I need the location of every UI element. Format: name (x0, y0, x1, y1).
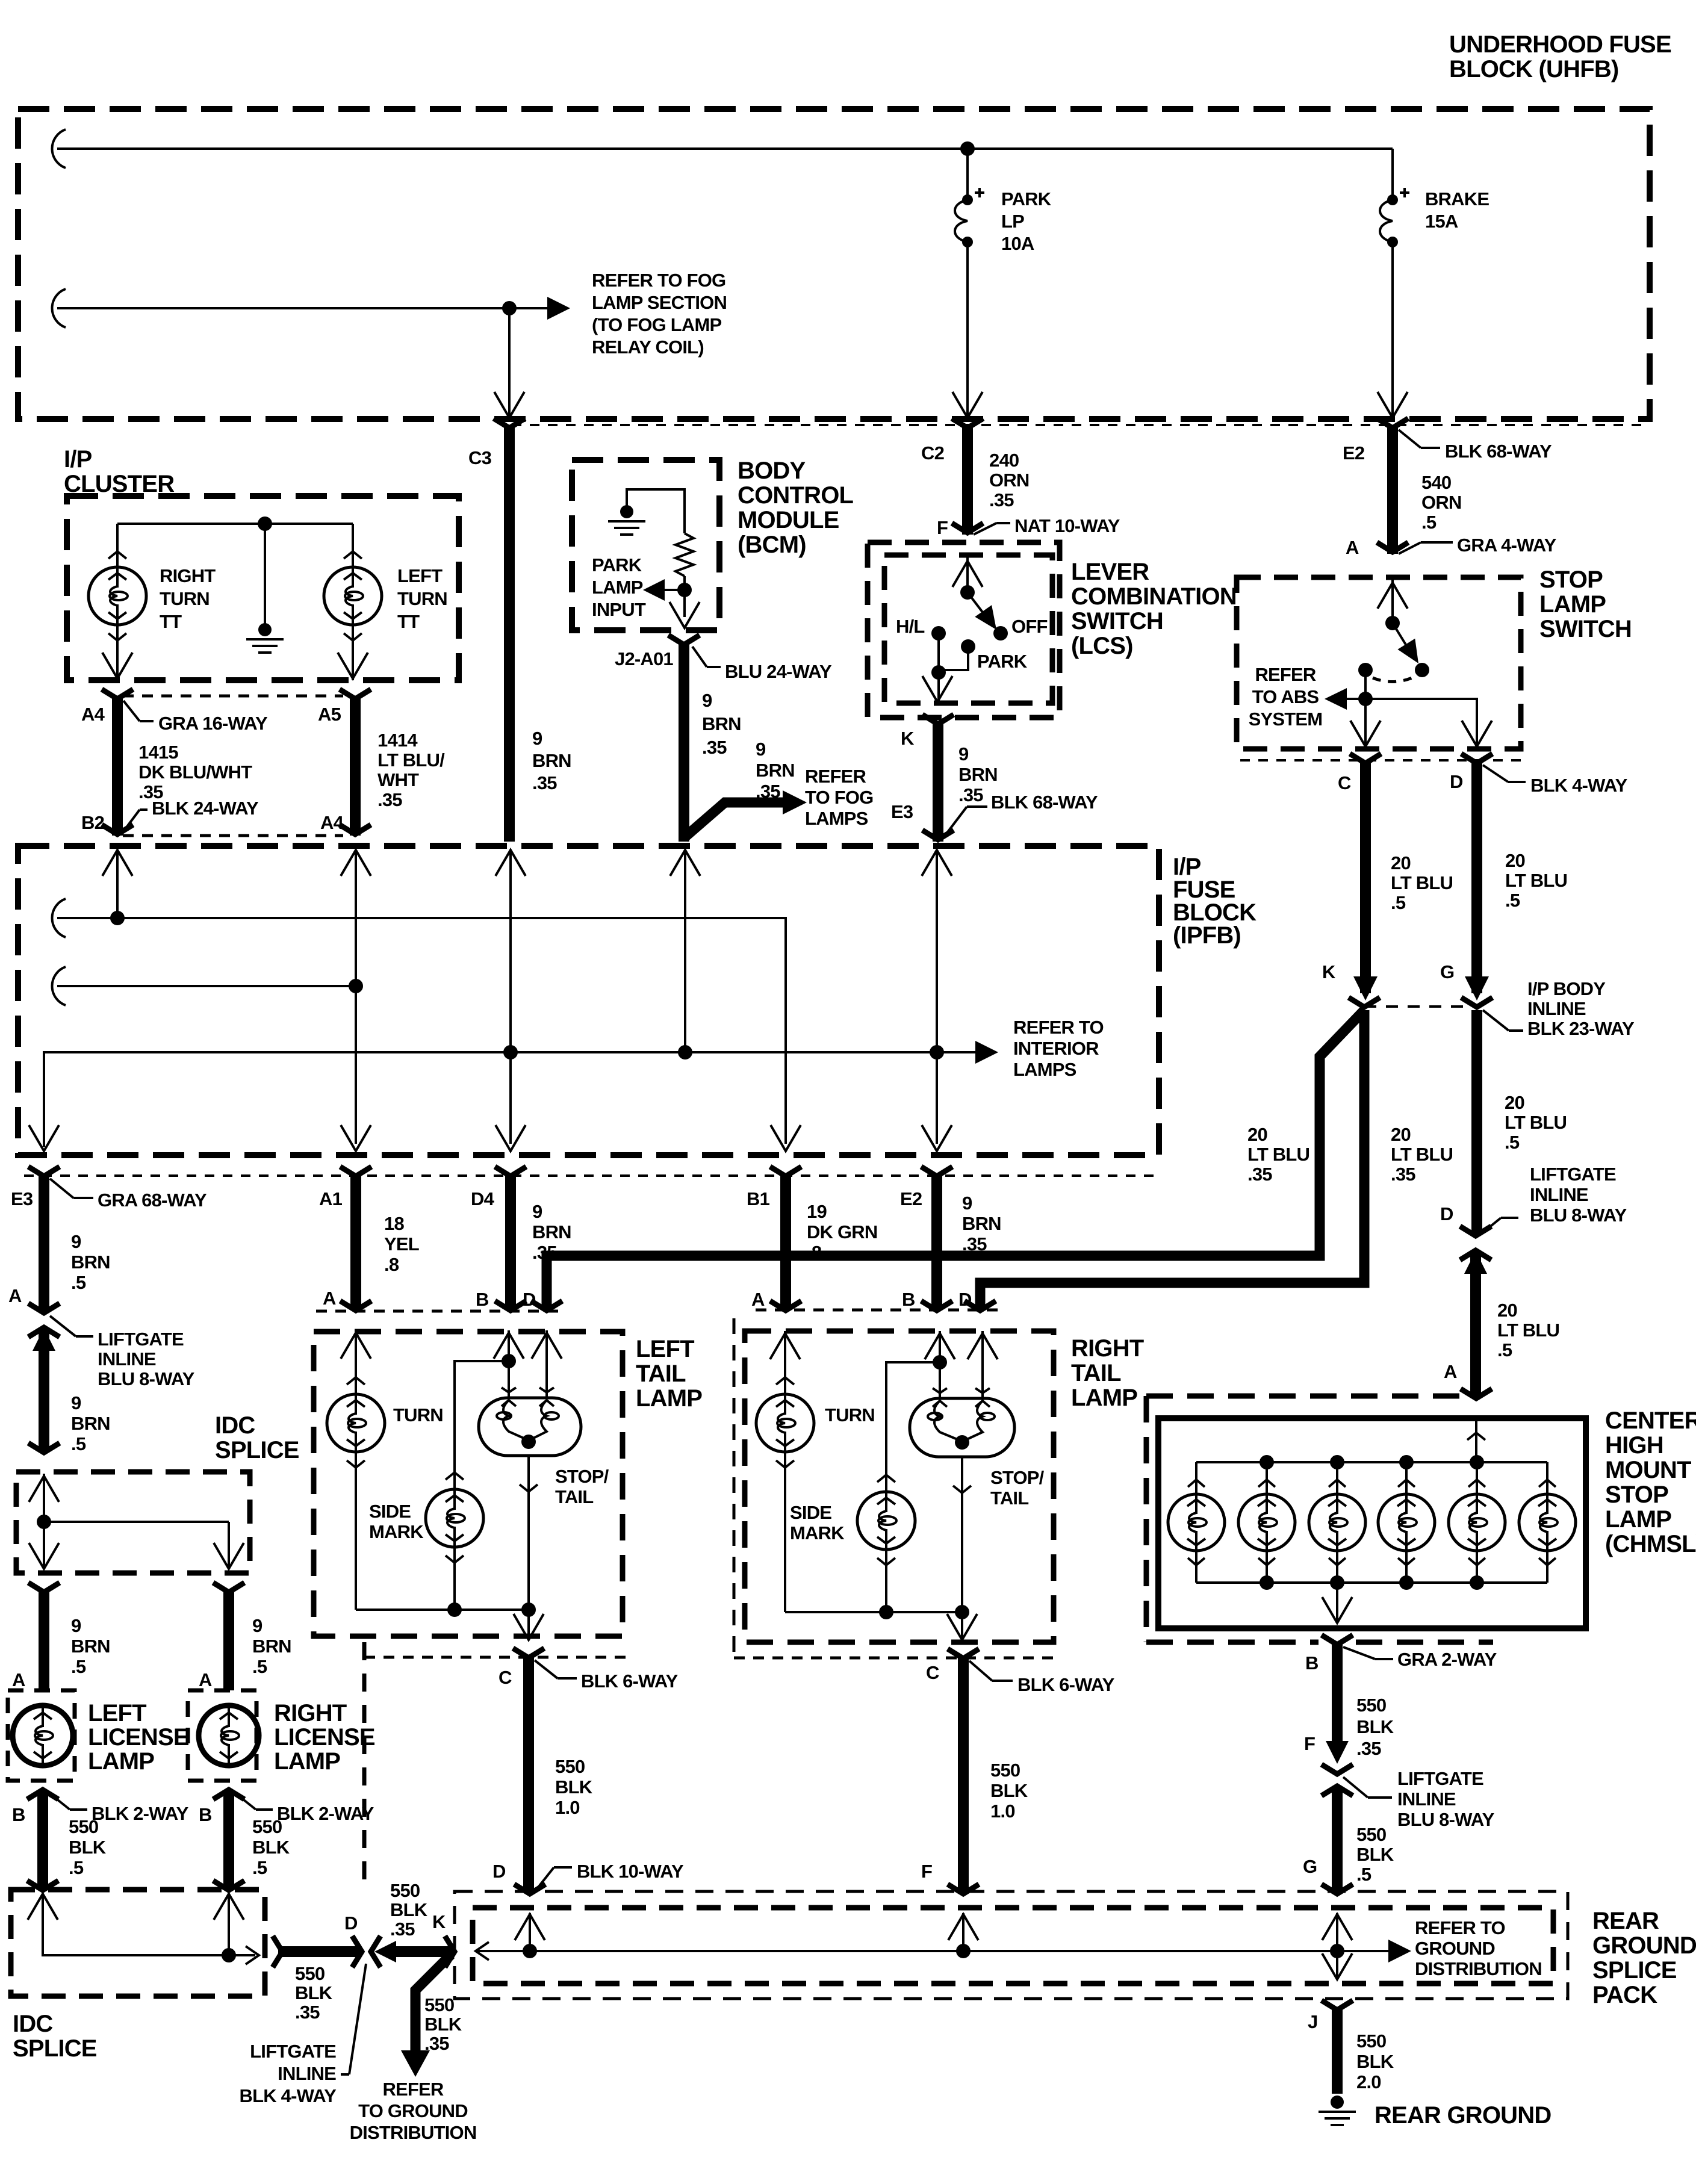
lamp: CHMSL bulb 5 (1476, 1462, 1478, 1494)
svg-text:1.0: 1.0 (555, 1797, 580, 1818)
connector D (liftgate inline BLK 4-WAY) (352, 1936, 362, 1967)
stop switch connector face line (1240, 759, 1529, 762)
connector K (rear ground splice) (445, 1936, 455, 1967)
wire: LCS feed (966, 555, 969, 592)
wire: CHMSL ground exit (1336, 1583, 1338, 1621)
svg-text:1415: 1415 (138, 742, 178, 763)
svg-text:20: 20 (1391, 852, 1411, 873)
wire: splice J branch (1336, 1951, 1338, 1978)
lamp: right SIDE MARK (857, 1492, 915, 1550)
node: bus3 junction at C3 (678, 1045, 692, 1059)
connector A4 GRA 16-WAY (102, 689, 133, 699)
wire: CHMSL top bus (1196, 1461, 1547, 1463)
wire: right turn feed entering box (784, 1331, 786, 1394)
svg-text:9: 9 (71, 1231, 81, 1252)
svg-text:(CHMSL): (CHMSL) (1605, 1531, 1696, 1557)
svg-text:BODY: BODY (738, 458, 806, 484)
node: CHMSL bottom bus junction x=2221 (1330, 1575, 1344, 1590)
svg-text:PARK: PARK (977, 651, 1028, 672)
wire: liftgate inline to IDC splice, 9 BRN .5 (39, 1328, 49, 1452)
lamp: right tail TURN (756, 1394, 814, 1452)
wire: CHMSL bottom bus (1196, 1581, 1547, 1584)
wire: branch to right side marker (886, 1362, 940, 1492)
svg-text:LAMP: LAMP (1071, 1385, 1137, 1411)
node: LCS output junction (931, 665, 946, 680)
svg-text:TAIL: TAIL (990, 1488, 1028, 1509)
svg-text:D: D (523, 1289, 536, 1310)
svg-text:LEVER: LEVER (1071, 559, 1149, 585)
connector C2 (UHFB) (952, 418, 983, 428)
svg-text:IDC: IDC (13, 2011, 53, 2037)
wire: IPFB C3 internal (684, 850, 686, 1052)
svg-text:BLU 24-WAY: BLU 24-WAY (725, 661, 832, 682)
lamp: right STOP/TAIL dual filament (910, 1398, 1014, 1457)
node: IDC2 splice node (222, 1948, 236, 1962)
connector C3 (UHFB) (494, 418, 525, 428)
node: bus3 junction at D4 (503, 1045, 518, 1059)
svg-text:INTERIOR: INTERIOR (1013, 1038, 1099, 1059)
svg-text:E3: E3 (891, 801, 913, 822)
svg-text:A5: A5 (318, 704, 341, 725)
wire: left tail ground exit (527, 1610, 530, 1639)
svg-text:C3: C3 (468, 447, 492, 468)
svg-text:BLU 8-WAY: BLU 8-WAY (98, 1368, 195, 1389)
wire: stop output to C (1364, 699, 1367, 745)
svg-text:GRA 4-WAY: GRA 4-WAY (1457, 535, 1557, 556)
svg-text:20: 20 (1505, 850, 1525, 871)
svg-text:15A: 15A (1425, 211, 1458, 232)
node: park lamp input node (677, 583, 692, 597)
I/P cluster dashed box (67, 496, 459, 680)
svg-text:MODULE: MODULE (738, 507, 839, 533)
wire: LCS K to IPFB E3, 9 BRN .35 (933, 724, 943, 842)
left tail lamp dashed box (314, 1332, 623, 1636)
lamp: left SIDE MARK (426, 1489, 483, 1547)
svg-text:.5: .5 (1391, 892, 1406, 913)
left tail lamp connector face line (316, 1310, 566, 1313)
LCS inner dashed box (884, 555, 1052, 703)
svg-text:LAMP: LAMP (1539, 591, 1606, 618)
connector E2 (UHFB), BLK 68-WAY (1377, 418, 1408, 428)
svg-text:C2: C2 (921, 442, 944, 464)
wire: left turn feed entering box (355, 1330, 357, 1394)
svg-text:9: 9 (71, 1392, 81, 1413)
node: ground bus at side marker (447, 1602, 462, 1617)
node: right ground bus at side marker (879, 1605, 893, 1619)
wire: UHFB feed bus 2 (fog lamp feed) (57, 307, 509, 309)
svg-text:A1: A1 (319, 1188, 343, 1209)
svg-text:BRN: BRN (71, 1252, 110, 1273)
wire: C2 to LCS F, 240 ORN .35 (962, 425, 973, 535)
svg-text:INLINE: INLINE (98, 1348, 156, 1370)
svg-text:RIGHT: RIGHT (1071, 1335, 1144, 1362)
svg-text:K: K (901, 728, 915, 749)
svg-text:C: C (1338, 772, 1351, 793)
svg-text:LIFTGATE: LIFTGATE (250, 2041, 336, 2062)
svg-text:TAIL: TAIL (555, 1486, 593, 1507)
wire: left turn lamp to A5 (352, 625, 354, 680)
svg-text:A: A (323, 1288, 336, 1309)
lamp: RIGHT TURN TT (89, 567, 146, 625)
connector K (I/P body inline) (1349, 997, 1380, 1007)
lamp: CHMSL bulb 2 (1266, 1462, 1268, 1494)
svg-text:LAMP: LAMP (592, 577, 643, 598)
wire: LCS output (937, 672, 940, 701)
wire: right license to IDC2, 550 BLK .5 (223, 1790, 234, 1890)
lamp: CHMSL bulb 6 (1546, 1462, 1548, 1494)
svg-text:19: 19 (807, 1201, 827, 1222)
wire: BRAKE fuse output (1391, 242, 1394, 415)
svg-text:B1: B1 (747, 1188, 770, 1209)
lamp: RIGHT LICENSE LAMP (199, 1705, 259, 1766)
IDC splice dashed box (upper) (16, 1472, 250, 1573)
svg-text:I/P BODY: I/P BODY (1527, 978, 1606, 999)
svg-text:F: F (1304, 1733, 1315, 1754)
svg-text:LT BLU: LT BLU (1505, 1112, 1567, 1133)
svg-text:BLK 68-WAY: BLK 68-WAY (991, 792, 1098, 813)
connector D4 (495, 1167, 526, 1176)
svg-text:LIFTGATE: LIFTGATE (1530, 1164, 1616, 1185)
svg-text:.35: .35 (532, 1242, 557, 1263)
svg-text:18: 18 (384, 1213, 404, 1234)
wire: splice G branch (1336, 1913, 1338, 1951)
node: stop output junction (1358, 692, 1373, 706)
connector left license feed (28, 1583, 60, 1592)
switch: LCS wiper (968, 592, 992, 625)
wire: A1 to left tail lamp A, 18 YEL .8 (350, 1176, 361, 1310)
switch: stop lamp switch wiper (1393, 623, 1414, 657)
svg-text:COMBINATION: COMBINATION (1071, 583, 1237, 610)
node: cluster bus junction (258, 517, 272, 531)
svg-text:LEFT: LEFT (88, 1700, 146, 1726)
svg-text:BLOCK (UHFB): BLOCK (UHFB) (1449, 56, 1618, 82)
svg-text:DK BLU/WHT: DK BLU/WHT (138, 762, 252, 783)
svg-text:SWITCH: SWITCH (1071, 608, 1163, 634)
svg-text:BLK 6-WAY: BLK 6-WAY (581, 1671, 679, 1692)
svg-text:LT BLU: LT BLU (1391, 872, 1453, 893)
wire: refer to ABS arrow (1347, 698, 1365, 700)
I/P body inline connector line (1364, 1005, 1477, 1008)
svg-text:MARK: MARK (790, 1522, 845, 1543)
node: stop/tail common (521, 1435, 536, 1449)
node: splice at G/J (1330, 1944, 1344, 1958)
wire: IDC2 left branch (43, 1894, 226, 1955)
wire: D to G inline, 20 LT BLU .5 (1471, 763, 1482, 993)
wire: right tail ground exit (961, 1612, 963, 1639)
wire: K inline branch 1 (to left tail lamp D), 20 LT BLU .35 (547, 1010, 1364, 1310)
right tail lamp outer boundary (733, 1318, 736, 1658)
svg-text:CENTER: CENTER (1605, 1407, 1696, 1434)
node: stop switch common (1385, 616, 1400, 630)
connector D (stop switch) BLK 4-WAY (1461, 754, 1493, 763)
wire: IPFB bus 3 (to interior lamps) (44, 1052, 987, 1147)
svg-text:BLK: BLK (390, 1899, 428, 1920)
wire: IPFB bus 2 (52, 967, 66, 1005)
ground: BCM internal ground (620, 505, 633, 518)
cluster connector face line (A4/A5) (123, 695, 343, 698)
svg-text:G: G (1303, 1856, 1317, 1877)
svg-text:BLK 2-WAY: BLK 2-WAY (277, 1803, 374, 1824)
connector B right license BLK 2-WAY (213, 1790, 244, 1799)
svg-text:(TO FOG LAMP: (TO FOG LAMP (592, 314, 722, 335)
svg-text:A: A (1444, 1361, 1457, 1382)
svg-text:LT BLU/: LT BLU/ (377, 749, 445, 771)
wire: resistor to output node (683, 576, 686, 617)
node: IDC1 splice node (37, 1515, 51, 1529)
svg-text:STOP: STOP (1539, 566, 1603, 593)
node: right stop/tail common (955, 1435, 969, 1450)
svg-text:1414: 1414 (377, 730, 418, 751)
rear ground splice pack outer dashed box (455, 1891, 1568, 1999)
connector A GRA 4-WAY (1377, 542, 1408, 552)
svg-text:RELAY COIL): RELAY COIL) (592, 337, 704, 358)
svg-text:SIDE: SIDE (790, 1502, 831, 1523)
svg-text:.35: .35 (1247, 1164, 1272, 1185)
wire: BCM ground to resistor (627, 489, 685, 533)
svg-text:.5: .5 (1505, 1132, 1520, 1153)
IDC splice dashed box (lower) (11, 1890, 265, 1996)
connector A (CHMSL) (1461, 1389, 1492, 1398)
svg-text:9: 9 (702, 690, 712, 711)
svg-text:I/P: I/P (64, 446, 92, 473)
svg-text:LICENSE: LICENSE (274, 1724, 375, 1751)
svg-text:A: A (8, 1285, 22, 1306)
svg-text:K: K (1322, 961, 1336, 982)
svg-text:.5: .5 (71, 1272, 86, 1293)
liftgate boundary dashed line (left) (362, 1642, 367, 1890)
ground: cluster ground (264, 524, 266, 630)
wire: PARK fuse output (966, 242, 969, 415)
svg-text:YEL: YEL (384, 1233, 419, 1255)
wire: splice F branch (962, 1913, 964, 1951)
node: stop switch NO contact (1415, 663, 1429, 677)
lamp: CHMSL bulb 1 (1195, 1462, 1197, 1494)
svg-text:.35: .35 (1391, 1164, 1415, 1185)
node: splice at D (523, 1944, 537, 1958)
wire: IPFB F3-D4 internal (509, 850, 512, 1144)
svg-text:LT BLU: LT BLU (1505, 870, 1567, 891)
svg-text:DK GRN: DK GRN (807, 1221, 877, 1242)
svg-text:9: 9 (252, 1615, 262, 1636)
connector B1 (770, 1167, 801, 1176)
svg-text:MOUNT: MOUNT (1605, 1457, 1691, 1483)
node: CHMSL top bus junction x=2336 (1399, 1455, 1414, 1469)
svg-text:10A: 10A (1001, 233, 1034, 254)
connector left license ground (27, 1881, 58, 1890)
wire: C to K inline, 20 LT BLU .5 (1360, 763, 1371, 993)
wire: IDC to right license lamp, 9 BRN .5 (223, 1592, 234, 1690)
svg-text:BRN: BRN (71, 1413, 110, 1434)
svg-text:BLK 24-WAY: BLK 24-WAY (152, 798, 259, 819)
wire: liftgate inline to rear ground G, 550 BLK .5 (1332, 1787, 1343, 1891)
underhood fuse block UHFB dashed box (18, 109, 1650, 419)
svg-text:UNDERHOOD FUSE: UNDERHOOD FUSE (1449, 31, 1671, 58)
wire: E2 to stop lamp switch A, 540 ORN .5 (1387, 425, 1398, 554)
svg-text:550: 550 (1356, 1695, 1386, 1716)
svg-text:9: 9 (532, 728, 542, 749)
wire: G inline to liftgate inline D, 20 LT BLU .5 (1471, 1010, 1482, 1235)
svg-text:.8: .8 (807, 1242, 822, 1263)
svg-text:BRN: BRN (958, 764, 998, 785)
node: bus1 junction at B2 (110, 911, 125, 925)
svg-text:D: D (1450, 771, 1463, 792)
wire: feed bus drop to BRAKE fuse (1391, 149, 1394, 200)
svg-text:TURN: TURN (825, 1404, 875, 1425)
svg-text:G: G (1440, 961, 1454, 982)
connector K (LCS) (922, 715, 954, 724)
I/P fuse block dashed box (18, 846, 1159, 1155)
wire: right stop/tail to ground bus (961, 1457, 963, 1612)
connector B2 BLK 24-WAY (102, 825, 133, 834)
svg-text:2.0: 2.0 (1356, 2071, 1381, 2092)
svg-text:SIDE: SIDE (369, 1501, 411, 1522)
node: splice at F (956, 1944, 971, 1958)
svg-text:BLK 4-WAY: BLK 4-WAY (240, 2085, 337, 2106)
wire: right tail B feed entering box (939, 1331, 941, 1400)
wire: right tail ground bus (785, 1611, 962, 1613)
svg-text:TAIL: TAIL (1071, 1360, 1121, 1386)
svg-text:20: 20 (1505, 1092, 1524, 1113)
svg-text:9: 9 (958, 743, 969, 765)
svg-text:STOP/: STOP/ (555, 1466, 609, 1487)
svg-text:F: F (937, 517, 948, 538)
wire: left license to IDC2, 550 BLK .5 (37, 1790, 48, 1890)
svg-text:B: B (12, 1804, 25, 1825)
svg-text:540: 540 (1421, 472, 1451, 493)
wire: right turn lamp to ground bus (784, 1452, 786, 1612)
node: bus3 junction at E2 (930, 1045, 944, 1059)
node: ground bus at stop/tail (521, 1602, 536, 1617)
svg-text:D: D (344, 1913, 358, 1934)
svg-text:OFF: OFF (1011, 616, 1048, 637)
wire: CHMSL feed (1475, 1418, 1477, 1462)
svg-text:BLK: BLK (1356, 1716, 1394, 1737)
svg-text:PACK: PACK (1592, 1982, 1657, 2008)
svg-text:20: 20 (1391, 1124, 1411, 1145)
wire: splice D branch (529, 1913, 531, 1951)
svg-text:.8: .8 (384, 1254, 399, 1275)
svg-text:REFER TO FOG: REFER TO FOG (592, 270, 725, 291)
svg-text:550: 550 (69, 1816, 98, 1837)
svg-text:B2: B2 (81, 812, 104, 833)
wire: right turn lamp feed (116, 524, 119, 567)
svg-text:BLK: BLK (555, 1776, 593, 1798)
svg-text:SYSTEM: SYSTEM (1249, 709, 1323, 730)
wire: IPFB A4-A1 internal (355, 850, 357, 1144)
svg-text:REAR GROUND: REAR GROUND (1375, 2102, 1551, 2129)
wire: A4 to B2, 1415 DK BLU/WHT .35 (112, 696, 123, 836)
svg-text:GRA 2-WAY: GRA 2-WAY (1397, 1649, 1497, 1670)
svg-text:REFER TO: REFER TO (1013, 1017, 1104, 1038)
svg-text:550: 550 (555, 1756, 585, 1777)
wire: CHMSL B to liftgate inline, 550 BLK .35 (1332, 1644, 1343, 1753)
svg-text:BLK: BLK (424, 2014, 462, 2035)
svg-text:C: C (499, 1667, 512, 1688)
wire: J2-A01 to IPFB C3, 9 BRN .35 (679, 644, 689, 842)
wire: liftgate inline to rear ground K, 550 BLK .35 (374, 1941, 396, 1962)
wire: IPFB E3-E2 internal (936, 850, 938, 1144)
svg-text:550: 550 (1356, 2030, 1386, 2052)
wire: left tail ground bus (356, 1609, 529, 1611)
svg-text:E2: E2 (900, 1188, 922, 1209)
lamp: left tail TURN (327, 1394, 385, 1452)
lamp: CHMSL bulb 3 (1336, 1462, 1338, 1494)
svg-text:BLK 4-WAY: BLK 4-WAY (1530, 775, 1628, 796)
wire: PARK contact drop (941, 647, 968, 670)
svg-text:D: D (1440, 1203, 1453, 1224)
svg-text:REFER TO: REFER TO (1415, 1917, 1505, 1938)
svg-text:IDC: IDC (215, 1412, 255, 1439)
svg-text:TAIL: TAIL (636, 1360, 686, 1387)
svg-text:BLK 6-WAY: BLK 6-WAY (1017, 1674, 1115, 1695)
svg-text:ORN: ORN (1421, 492, 1462, 513)
svg-text:BRN: BRN (532, 1221, 571, 1242)
svg-text:B: B (1305, 1652, 1319, 1674)
svg-text:INPUT: INPUT (592, 599, 646, 620)
svg-text:BRN: BRN (962, 1213, 1001, 1234)
wire: K inline branch 2 (to right tail lamp D), 20 LT BLU .35 (980, 1010, 1364, 1310)
svg-text:J: J (1308, 2011, 1317, 2032)
ground: REAR GROUND (1331, 2096, 1344, 2109)
svg-text:LAMP: LAMP (1605, 1506, 1671, 1533)
svg-text:BRAKE: BRAKE (1425, 188, 1489, 209)
svg-text:550: 550 (252, 1816, 282, 1837)
svg-text:.35: .35 (532, 772, 557, 793)
lamp: left STOP/TAIL dual filament (479, 1398, 581, 1456)
node: CHMSL bottom bus junction x=2336 (1399, 1575, 1414, 1590)
connector right license feed (213, 1583, 244, 1592)
wire: fog feed drop to C3 (508, 308, 511, 415)
svg-text:BLK: BLK (295, 1982, 333, 2003)
wire: left turn lamp to ground bus (355, 1452, 357, 1610)
UHFB bottom connector face line (512, 424, 1650, 426)
wire: stop switch feed (1391, 577, 1394, 623)
svg-text:A: A (12, 1669, 25, 1690)
wire: refer to fog lamps arrow (684, 802, 783, 838)
fuse BRAKE 15A (1387, 194, 1398, 205)
svg-text:240: 240 (989, 450, 1019, 471)
svg-text:9: 9 (756, 739, 766, 760)
node: CHMSL top bus junction x=2104 (1260, 1455, 1274, 1469)
svg-text:DISTRIBUTION: DISTRIBUTION (1415, 1958, 1542, 1979)
svg-text:550: 550 (295, 1963, 325, 1984)
connector A1 (340, 1167, 371, 1176)
svg-text:(IPFB): (IPFB) (1173, 922, 1241, 949)
svg-text:BLK: BLK (69, 1837, 107, 1858)
svg-text:B: B (199, 1804, 212, 1825)
connector right license ground (213, 1881, 244, 1890)
svg-text:RIGHT: RIGHT (274, 1700, 347, 1726)
connector C (left tail) BLK 6-WAY (364, 1656, 626, 1659)
connector liftgate inline BLU 8-WAY (left) (28, 1303, 60, 1313)
svg-text:CONTROL: CONTROL (738, 482, 854, 509)
node: CHMSL top bus junction x=2221 (1330, 1455, 1344, 1469)
switch arc (1373, 677, 1415, 682)
svg-text:A: A (199, 1669, 212, 1690)
svg-text:REFER: REFER (382, 2079, 443, 2100)
connector B (CHMSL) GRA 2-WAY (1322, 1635, 1353, 1645)
wire: IDC2 to liftgate inline D, 550 BLK .35 (273, 1936, 282, 1967)
svg-text:BLK: BLK (252, 1837, 290, 1858)
svg-text:H/L: H/L (896, 616, 925, 637)
svg-text:BLU 8-WAY: BLU 8-WAY (1530, 1205, 1627, 1226)
wire: C3 to IPFB F3, 9 BRN .35 (504, 425, 515, 842)
right license lamp dashed box (188, 1690, 256, 1781)
node: bus2 junction at A1 (349, 979, 363, 993)
svg-text:TURN: TURN (397, 588, 447, 609)
node: PARK contact (961, 639, 975, 654)
svg-text:.5: .5 (1356, 1864, 1371, 1885)
